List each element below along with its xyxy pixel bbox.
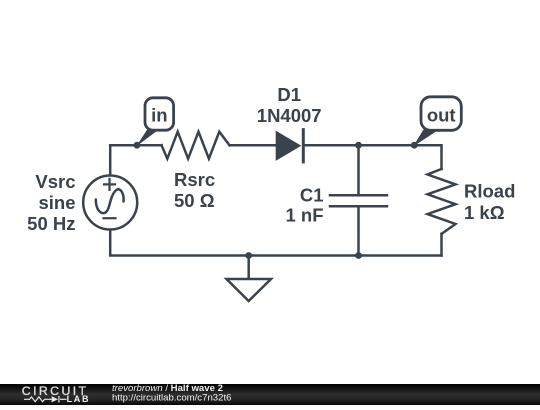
svg-text:in: in bbox=[151, 105, 167, 126]
voltage source Vsrc circle bbox=[83, 176, 137, 230]
Vsrc minus sign bbox=[104, 217, 116, 219]
footer logo zigzag and diode bbox=[24, 396, 67, 403]
svg-text:http://circuitlab.com/c7n32t6: http://circuitlab.com/c7n32t6 bbox=[112, 392, 231, 403]
diode D1 triangle (anode) bbox=[276, 131, 302, 161]
diode D1 cathode bar bbox=[302, 130, 305, 162]
wire: node in / Vsrc top terminal to Rsrc left lead bbox=[110, 145, 161, 176]
resistor Rload (vertical zigzag) bbox=[428, 169, 456, 234]
node flag "out" tail bbox=[413, 130, 439, 147]
wire: ground stub bbox=[247, 256, 250, 280]
wire: Rload bottom lead bbox=[440, 234, 443, 256]
wire: bottom rail to Vsrc minus terminal bbox=[110, 229, 441, 256]
svg-text:50 Hz: 50 Hz bbox=[27, 213, 75, 234]
footer bar bbox=[0, 384, 540, 405]
junction dot: node in bbox=[134, 142, 141, 149]
capacitor C1 top plate bbox=[330, 194, 387, 197]
ground symbol bbox=[227, 279, 272, 301]
wire: capacitor C1 bottom lead bbox=[357, 206, 360, 255]
svg-text:sine: sine bbox=[38, 192, 75, 213]
Vsrc sine wave symbol bbox=[96, 189, 124, 213]
svg-text:1 nF: 1 nF bbox=[285, 205, 323, 226]
svg-text:C1: C1 bbox=[300, 185, 324, 206]
junction dot: C1 top bbox=[355, 142, 362, 149]
wire: Rsrc right lead to D1 anode bbox=[230, 144, 277, 147]
svg-text:out: out bbox=[427, 105, 456, 126]
svg-text:Vsrc: Vsrc bbox=[35, 171, 75, 192]
svg-text:1N4007: 1N4007 bbox=[257, 105, 322, 126]
svg-text:Rsrc: Rsrc bbox=[174, 169, 215, 190]
svg-text:LAB: LAB bbox=[67, 394, 91, 404]
node flag "in" tail bbox=[136, 130, 158, 147]
node flag "in" box bbox=[145, 98, 174, 130]
svg-text:50 Ω: 50 Ω bbox=[174, 190, 215, 211]
junction dot: node out bbox=[411, 142, 418, 149]
junction dot: C1 bottom bbox=[355, 252, 362, 259]
junction dot: ground bbox=[245, 252, 252, 259]
Vsrc plus sign bbox=[104, 179, 115, 190]
wire: D1 cathode through node out to Rload top lead bbox=[303, 145, 441, 169]
capacitor C1 bottom plate bbox=[330, 205, 387, 208]
wire: capacitor C1 top lead bbox=[357, 145, 360, 195]
svg-text:1 kΩ: 1 kΩ bbox=[464, 202, 505, 223]
node flag "out" box bbox=[421, 97, 461, 131]
resistor Rsrc (zigzag) bbox=[162, 132, 230, 159]
svg-text:Rload: Rload bbox=[464, 181, 515, 202]
svg-text:D1: D1 bbox=[277, 84, 301, 105]
